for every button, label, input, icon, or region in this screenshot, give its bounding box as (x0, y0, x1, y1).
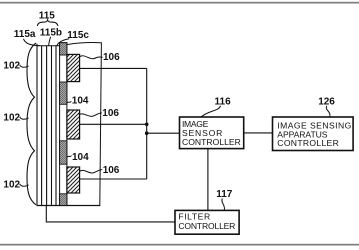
leader 115b (49, 37, 51, 46)
layer line (lens attach) (36, 44, 38, 206)
svg-text:CONTROLLER: CONTROLLER (277, 138, 339, 148)
svg-text:104: 104 (72, 96, 89, 107)
top frame border (0, 2, 359, 4)
filter element 106 (middle) (67, 110, 80, 139)
svg-text:106: 106 (103, 52, 120, 63)
leader 116 (201, 106, 220, 117)
wire controller 116 to controller 126 (244, 132, 273, 134)
leader 104 lower (67, 156, 72, 158)
opaque segment 104 (bottom) (60, 194, 67, 206)
filter controller box U117 (175, 210, 239, 234)
leader 102 middle (20, 117, 29, 119)
wire from top filter element (80, 67, 147, 69)
leader 102 bottom (20, 184, 29, 186)
svg-text:117: 117 (216, 189, 233, 200)
svg-text:115c: 115c (67, 30, 89, 41)
image sensing apparatus controller box U126 (273, 117, 354, 151)
svg-text:102: 102 (3, 179, 20, 190)
svg-text:102: 102 (3, 60, 20, 71)
leader 126 (326, 106, 330, 117)
substrate plate outline (67, 43, 102, 206)
leader 102 top (20, 65, 29, 67)
layer 115a line (41, 46, 43, 206)
filter strip body 115c (60, 43, 67, 206)
layer line (46, 46, 48, 206)
opaque segment 104 (third) (60, 141, 67, 164)
leader 104 upper (67, 101, 72, 103)
leader 106 bottom (80, 170, 103, 173)
leader 117 (222, 198, 225, 210)
leader 106 top (80, 56, 103, 59)
junction bus tap (145, 131, 149, 135)
brace under 115 (37, 20, 58, 26)
opaque segment 104 (second) (60, 82, 67, 104)
svg-text:104: 104 (72, 152, 89, 163)
layers top edge (37, 45, 60, 47)
layer line (55, 46, 57, 206)
wire structure bottom to filter controller (46, 206, 175, 222)
leader 115c (57, 39, 69, 46)
junction middle wire (145, 123, 149, 127)
vertical bus wire (146, 68, 148, 179)
filter element 106 (bottom) (67, 167, 80, 193)
wire controller 116 down to filter controller (207, 149, 209, 211)
svg-text:116: 116 (215, 97, 232, 108)
svg-text:CONTROLLER: CONTROLLER (178, 221, 235, 231)
opaque segment 104 (top) (60, 43, 67, 55)
wire bus to image sensor controller (147, 132, 180, 134)
svg-text:115a: 115a (14, 29, 36, 40)
wire from bottom filter element (80, 178, 147, 180)
svg-text:106: 106 (102, 108, 119, 119)
filter element 106 (top) (67, 54, 80, 81)
leader 106 middle (79, 113, 102, 116)
leader 115a (24, 39, 40, 46)
wire from middle filter element (80, 123, 147, 125)
svg-text:CONTROLLER: CONTROLLER (182, 137, 241, 147)
svg-text:106: 106 (103, 165, 120, 176)
bottom frame border (0, 244, 359, 246)
lens array 102 (three microlenses) (27, 43, 36, 205)
image sensor controller box U116 (180, 117, 244, 149)
svg-text:115: 115 (39, 10, 56, 21)
structure bottom edge (37, 205, 101, 207)
layer 115b line (51, 46, 53, 206)
svg-text:102: 102 (3, 112, 20, 123)
